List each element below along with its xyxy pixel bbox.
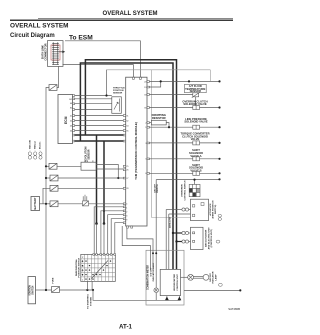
ECM U1 — [58, 95, 73, 144]
svg-text:20: 20 — [144, 81, 146, 83]
svg-text:OVERDRIVE: OVERDRIVE — [182, 184, 184, 197]
ABS actuator box — [191, 227, 204, 249]
svg-text:SWITCH: SWITCH — [157, 184, 159, 193]
shift solenoid B coil symbol — [193, 171, 200, 175]
svg-text:44: 44 — [70, 130, 72, 132]
wire C3 row — [43, 188, 123, 204]
svg-text:5: 5 — [145, 159, 146, 161]
data link connector label — [40, 43, 47, 60]
wire fuse to PNP — [60, 289, 94, 291]
svg-text:: Models: : Models — [40, 141, 42, 151]
svg-text:(PARK POSITION: (PARK POSITION — [212, 200, 215, 218]
OD off indicator rotated label — [151, 262, 156, 281]
A/T fluid temperature sensor label box — [185, 84, 207, 92]
A/T assembly enclosure — [107, 70, 211, 218]
junction dot thick tap 1 — [95, 222, 98, 225]
svg-text:UNIFIED METER: UNIFIED METER — [174, 274, 176, 291]
TCM U2 — [126, 77, 147, 226]
svg-text:CONTROL SWITCH: CONTROL SWITCH — [184, 180, 186, 200]
svg-text:2: 2 — [145, 123, 146, 125]
od off sw label — [154, 183, 159, 193]
TCM bottom pins — [127, 226, 133, 228]
svg-text:SAT280B: SAT280B — [228, 307, 240, 311]
unified meter control unit inner box — [160, 269, 180, 295]
node dot thick tap crossing — [103, 210, 105, 212]
svg-text:102: 102 — [69, 99, 72, 101]
svg-text:SWITCH): SWITCH) — [215, 205, 217, 215]
TCC solenoid coil symbol — [193, 141, 200, 145]
PNP gear letters — [82, 257, 84, 282]
svg-text:2: 2 — [126, 212, 127, 214]
PNP matrix grid — [81, 254, 116, 281]
svg-text:BATTERY: BATTERY — [33, 197, 37, 209]
wire C2 row — [46, 177, 123, 179]
thick CAN wire ECM-TCM 1 — [75, 134, 124, 136]
svg-text:TCM (TRANSMISSION CONTROL MODU: TCM (TRANSMISSION CONTROL MODULE) — [134, 122, 138, 180]
svg-text:3: 3 — [145, 143, 146, 145]
svg-text:1: 1 — [126, 208, 127, 210]
revolution sensor box — [81, 162, 96, 170]
svg-text:9: 9 — [126, 220, 127, 222]
header rule upper — [38, 17, 233, 19]
svg-text:CONNECTOR: CONNECTOR — [43, 43, 47, 60]
svg-text:LAMP: LAMP — [214, 274, 217, 281]
svg-text:O/D OFF: O/D OFF — [210, 272, 212, 282]
combination meter outer box — [146, 250, 184, 305]
PNP switch rotated label — [75, 257, 81, 277]
PNP switch matrix box — [81, 254, 116, 281]
TCM top pins — [133, 77, 142, 79]
thick bus line T1 — [85, 60, 176, 270]
svg-text:SENSOR: SENSOR — [113, 93, 123, 95]
connector pairs at ABS — [182, 231, 189, 243]
svg-text:6: 6 — [145, 173, 146, 175]
svg-text:A/T DEVICE: A/T DEVICE — [209, 203, 212, 216]
wire ignition to fuse — [36, 289, 52, 291]
svg-text:1: 1 — [145, 127, 146, 129]
svg-text:SYSTEM: SYSTEM — [91, 297, 93, 306]
ECM to throttle sensor wires — [75, 96, 112, 110]
svg-text:VALVE: VALVE — [191, 137, 200, 141]
pin number labels TCM right — [144, 81, 146, 175]
overrun clutch solenoid valve label — [182, 99, 207, 106]
header rule lower — [10, 19, 233, 21]
junction dot thick tap 2 — [103, 222, 106, 225]
bottom bus wire — [184, 289, 240, 291]
svg-text:INDICATOR: INDICATOR — [212, 271, 215, 283]
connector pair at A/T device — [182, 208, 189, 211]
red highlight box on connector — [51, 45, 60, 60]
thick bus line T2 — [80, 63, 173, 269]
ignition switch — [28, 277, 36, 304]
ECM to TCM wires — [75, 116, 124, 131]
legend with/without OD — [29, 140, 42, 151]
svg-text:25: 25 — [126, 166, 128, 168]
torque converter clutch solenoid valve label — [180, 132, 209, 142]
svg-text:4: 4 — [126, 204, 127, 206]
OD off lamp symbol — [154, 288, 159, 293]
line pressure solenoid valve label — [184, 117, 208, 124]
to starting system label — [87, 294, 93, 309]
pin number labels TCM left — [126, 115, 128, 221]
wire C4 row battery feed — [40, 203, 124, 205]
wires revolution sensor to TCM pins — [96, 165, 123, 179]
wire A/T device row2 — [169, 214, 191, 269]
harness connector C5 — [49, 163, 57, 169]
overdrive control switch label — [182, 180, 187, 200]
wire TCM to dropping resistor — [149, 122, 151, 124]
wire from wire7 down to OD switch — [194, 180, 196, 185]
svg-text:35: 35 — [126, 130, 128, 132]
wire A/T device row1 — [166, 210, 190, 270]
dropping resistor box — [151, 120, 166, 125]
svg-text:34: 34 — [126, 125, 128, 127]
svg-text:19: 19 — [144, 87, 146, 89]
svg-text:PARK/NEUTRAL: PARK/NEUTRAL — [75, 258, 78, 276]
svg-text:41: 41 — [70, 115, 72, 117]
wire vertical from dot to PNP col — [103, 224, 105, 255]
svg-text:RESISTOR: RESISTOR — [152, 116, 166, 120]
pin number labels ECM — [69, 99, 72, 133]
svg-text:66: 66 — [70, 103, 72, 105]
A/T device rotated label — [209, 200, 217, 218]
PNP matrix contact dots — [82, 260, 111, 279]
svg-text:FUSE: FUSE — [53, 277, 55, 283]
wire thermistor down — [195, 97, 197, 106]
node dots on wire 1 — [160, 80, 162, 82]
thick CAN wire ECM-TCM 2 — [75, 140, 124, 142]
svg-text:85: 85 — [70, 107, 72, 109]
svg-text:(CONTROL UNIT): (CONTROL UNIT) — [211, 229, 213, 247]
svg-text:33: 33 — [144, 94, 146, 96]
ground sensor symbol — [83, 195, 89, 206]
node dot on wire — [105, 94, 107, 96]
lamp labels rotated — [210, 271, 217, 283]
line pressure solenoid coil symbol — [193, 125, 200, 129]
svg-text:: With O/D: : With O/D — [29, 140, 32, 151]
link between lamps — [194, 275, 204, 277]
right column wires to terminal dots — [149, 81, 219, 179]
svg-text:CONTROL UNIT: CONTROL UNIT — [177, 274, 179, 291]
svg-text:: Without: : Without — [34, 141, 37, 151]
wire long vertical ground/feed line — [46, 88, 49, 291]
svg-text:IGNITION: IGNITION — [29, 285, 31, 296]
wire revolution sensor left — [57, 165, 81, 167]
ECM pins right — [73, 95, 75, 142]
overdrive control switch box — [189, 184, 200, 196]
wire vertical from dot to PNP col — [96, 224, 98, 255]
svg-text:28: 28 — [126, 188, 128, 190]
svg-text:35: 35 — [144, 107, 146, 109]
arrow from connector — [59, 51, 63, 53]
svg-text:POSITION SWITCH: POSITION SWITCH — [79, 257, 81, 277]
wire data-link drop to slash connector — [57, 66, 59, 87]
svg-text:32: 32 — [126, 120, 128, 122]
svg-text:COMBINATION METER: COMBINATION METER — [147, 265, 150, 290]
svg-text:AT-1: AT-1 — [119, 324, 133, 331]
TCM left pins — [123, 115, 125, 224]
potentiometer symbol — [119, 99, 121, 112]
throttle position sensor box — [112, 97, 122, 114]
indicator lamp 2 — [188, 274, 194, 280]
svg-text:SENSOR: SENSOR — [88, 149, 91, 159]
wires from TCM bottom to meter lamps — [122, 180, 156, 288]
harness connector C2 — [50, 175, 58, 181]
data link connector pin ladder — [52, 42, 59, 65]
wire dropping resistor to line pressure wire — [166, 123, 169, 128]
svg-text:42: 42 — [70, 120, 72, 122]
PNP rotary diagonal — [92, 261, 109, 279]
svg-text:27: 27 — [126, 178, 128, 180]
svg-text:TO STARTING: TO STARTING — [87, 294, 90, 309]
svg-text:3: 3 — [126, 216, 127, 218]
vertical branch from enclosure corner — [106, 70, 108, 96]
svg-text:AND ELECTRIC UNIT: AND ELECTRIC UNIT — [207, 227, 210, 250]
harness connector C4 — [50, 201, 58, 207]
overrun solenoid coil symbol — [193, 106, 200, 110]
harness connector symbol C1 — [49, 85, 57, 91]
lamp to bottom wire — [155, 293, 157, 301]
battery — [31, 197, 40, 211]
meter output wire to indicator lamps — [181, 276, 188, 278]
terminal dots right column — [218, 80, 220, 180]
svg-text:ECM: ECM — [64, 116, 68, 124]
svg-text:26: 26 — [126, 170, 128, 172]
CAN wire branch to ABS row1 — [173, 233, 182, 242]
wire to-ESM data line — [65, 41, 140, 77]
shift solenoid A coil symbol — [193, 157, 200, 161]
wire PNP bottom drop 2 — [91, 281, 93, 290]
indicator lamp 3 — [203, 274, 209, 280]
thick tap down 2 — [103, 141, 105, 224]
wire PNP bottom drop — [86, 281, 88, 290]
TCM right pins — [147, 81, 149, 175]
svg-text:43: 43 — [70, 125, 72, 127]
throttle position sensor label — [113, 88, 125, 95]
data link connector box — [48, 41, 64, 67]
wire from data link connector to TCM top — [63, 65, 134, 78]
ground arrows under meter — [165, 296, 169, 300]
thick tap down 1 — [96, 135, 98, 224]
svg-text:SWITCH: SWITCH — [32, 285, 34, 294]
shift solenoid valve A label — [189, 148, 203, 158]
revolution sensor label — [85, 146, 91, 162]
circled code at ABS — [216, 240, 220, 243]
svg-text:SOLENOID VALVE: SOLENOID VALVE — [184, 120, 208, 124]
harness connector C3 — [50, 185, 58, 191]
thermistor symbol — [192, 92, 200, 97]
ABS rotated label — [205, 227, 214, 250]
svg-text:31: 31 — [126, 115, 128, 117]
TCM bottom-left routing wires to PNP — [94, 207, 123, 255]
revolution sensor top stubs — [86, 160, 88, 162]
wire to bottom bus — [93, 290, 180, 300]
dropping resistor label — [152, 113, 166, 120]
PNP matrix top pins — [93, 254, 116, 256]
shift solenoid valve B label — [189, 163, 203, 173]
A/T device box — [191, 199, 209, 220]
wire C5 to vertical — [46, 165, 49, 167]
svg-text:ABS ACTUATOR: ABS ACTUATOR — [205, 229, 208, 247]
